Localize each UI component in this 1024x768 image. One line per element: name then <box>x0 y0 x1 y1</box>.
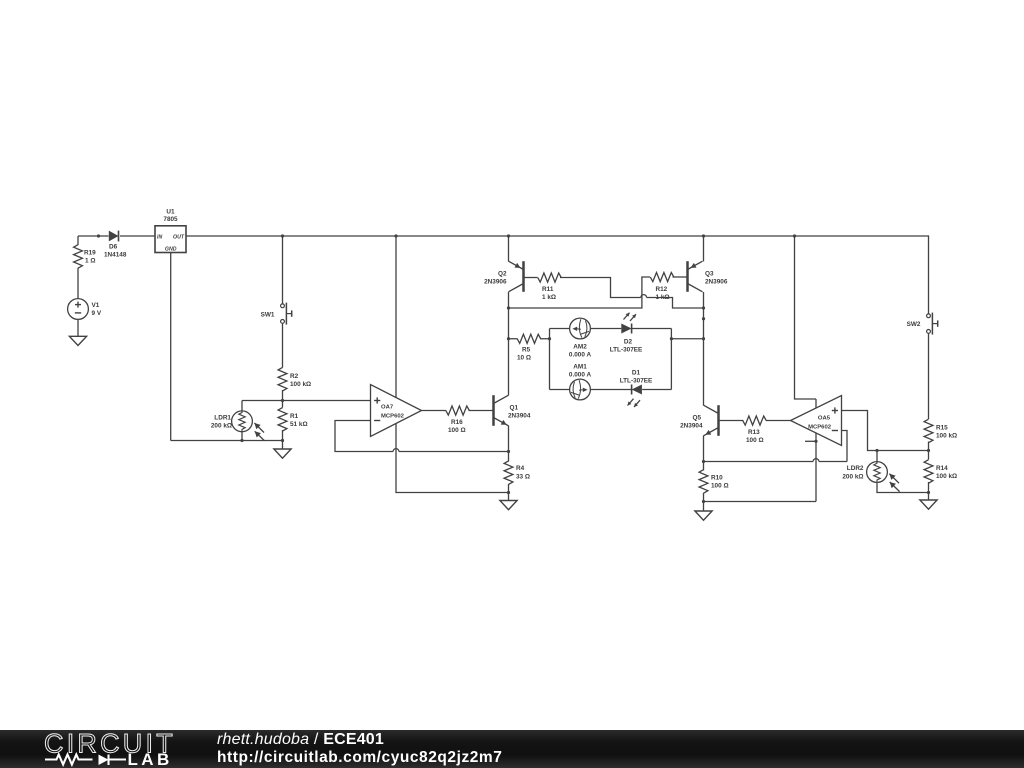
svg-text:1 kΩ: 1 kΩ <box>542 294 556 301</box>
wire Q5 emitter down to feedback node <box>703 436 705 462</box>
svg-text:100 kΩ: 100 kΩ <box>936 433 957 440</box>
node dot rail at D6 anode <box>97 234 100 237</box>
svg-text:R19: R19 <box>84 250 96 257</box>
wire D-loop tap to Q3 collector line <box>671 338 703 340</box>
wire V1 bottom to ground <box>77 319 79 336</box>
node dot Q3 collector / R11 <box>702 306 705 309</box>
wire AM1 to D1 <box>590 389 631 391</box>
svg-text:MCP602: MCP602 <box>808 424 832 430</box>
svg-text:0.000 A: 0.000 A <box>569 371 592 378</box>
wire Q1 emitter down to feedback node <box>508 426 510 452</box>
svg-text:SW2: SW2 <box>907 321 921 328</box>
svg-text:LDR2: LDR2 <box>847 465 864 472</box>
wire R5 right lead <box>540 338 550 340</box>
op-amp OA5 MCP602 (mirrored) <box>791 396 842 446</box>
svg-text:R12: R12 <box>656 286 668 293</box>
wire rail to Q3 emitter <box>703 236 705 261</box>
svg-text:OUT: OUT <box>173 234 185 240</box>
resistor R19 <box>74 245 97 269</box>
resistor R15 <box>924 419 957 443</box>
LED D1 LTL-307EE <box>620 369 653 407</box>
photoresistor LDR2 <box>842 462 899 492</box>
wire OA5 V+ from rail <box>795 236 817 399</box>
wire top 5V rail U1 OUT to SW2 corner <box>186 236 929 314</box>
svg-text:100 kΩ: 100 kΩ <box>936 473 957 480</box>
svg-text:Q5: Q5 <box>692 415 701 422</box>
ground below R14 <box>920 493 937 510</box>
wire OA5 minus input <box>842 431 848 462</box>
svg-text:AM2: AM2 <box>573 343 587 350</box>
wire bottom-left rail U1 GND to R1 bottom <box>171 440 283 442</box>
svg-text:GND: GND <box>165 247 177 253</box>
svg-text:D1: D1 <box>632 369 641 376</box>
svg-text:R10: R10 <box>711 475 723 482</box>
wire SW2 bottom to R15 <box>928 333 930 419</box>
wire R12 right to Q3 base <box>673 276 688 278</box>
svg-text:2N3906: 2N3906 <box>484 279 507 286</box>
svg-text:1 Ω: 1 Ω <box>85 258 95 265</box>
wire D-loop right vertical <box>670 329 672 390</box>
wire LDR1 bottom stub <box>241 432 243 441</box>
transistor Q2 2N3906 <box>484 261 523 292</box>
svg-text:1N4148: 1N4148 <box>104 252 127 259</box>
svg-text:33 Ω: 33 Ω <box>516 474 530 481</box>
wire D1 to right vertical <box>642 389 671 391</box>
wire LDR2 top stub <box>876 451 878 462</box>
svg-text:100 Ω: 100 Ω <box>711 483 729 490</box>
wire R19 top lead <box>77 236 79 245</box>
node dot rail at SW1 <box>281 234 284 237</box>
node dot Q3 collector mid <box>702 317 705 320</box>
transistor Q5 2N3904 <box>680 405 718 436</box>
transistor Q1 2N3904 <box>494 395 531 426</box>
LED D2 LTL-307EE <box>610 313 643 354</box>
node dot LDR1 bottom <box>240 439 243 442</box>
regulator U1 7805 <box>155 209 186 253</box>
wire rail to Q2 emitter <box>508 236 510 261</box>
resistor R13 <box>743 416 767 444</box>
wire R14 top lead <box>928 451 930 460</box>
svg-text:LDR1: LDR1 <box>214 415 231 422</box>
diode D6 <box>104 231 127 259</box>
node dot R1 bottom ground <box>281 439 284 442</box>
node dot R4 bottom ground <box>507 491 510 494</box>
resistor R11 <box>538 273 562 301</box>
node dot rail at OA7 supply <box>394 234 397 237</box>
wire SW1 top from rail <box>282 236 284 304</box>
wire Q5 feedback row to OA5 minus drop <box>704 459 848 462</box>
wire D6 cathode to U1 IN <box>120 235 155 237</box>
node dot R5 left <box>507 337 510 340</box>
ammeter AM2 <box>569 318 592 358</box>
resistor R12 <box>650 273 674 302</box>
wire node row y=400.5 LDR1 to OA7 + <box>242 400 371 402</box>
svg-text:AM1: AM1 <box>573 363 587 370</box>
svg-text:IN: IN <box>157 234 162 240</box>
node dot Q3 collector / D loop <box>702 337 705 340</box>
node dot rail at Q2 emitter <box>507 234 510 237</box>
switch SW2 <box>907 313 938 335</box>
node dot OA5 V- stub <box>814 440 817 443</box>
CircuitLab logo <box>0 730 200 768</box>
wire R4 bottom lead <box>508 484 510 493</box>
svg-text:R1: R1 <box>290 413 299 420</box>
node dot divider R15/R14 <box>927 449 930 452</box>
wire Q3 collector down to Q5 collector <box>703 292 705 405</box>
svg-text:D2: D2 <box>624 338 633 345</box>
resistor R14 <box>924 460 957 484</box>
svg-text:R14: R14 <box>936 465 948 472</box>
node dot rail at Q3 emitter <box>702 234 705 237</box>
ground below V1 <box>69 336 86 345</box>
svg-text:R13: R13 <box>748 429 760 436</box>
node dot Q2 collector / R12 <box>507 306 510 309</box>
voltage source V1 <box>68 299 102 320</box>
resistor R10 <box>699 470 728 494</box>
wire AM2 to D2 <box>590 328 621 330</box>
svg-text:MCP602: MCP602 <box>381 413 405 419</box>
wire OA5 plus input to divider node <box>842 411 929 451</box>
photoresistor LDR1 <box>211 411 265 441</box>
node dot LDR2 top <box>875 449 878 452</box>
wire ammeter loop left vertical <box>549 329 551 390</box>
svg-text:7805: 7805 <box>163 216 178 223</box>
svg-text:U1: U1 <box>166 209 175 216</box>
node dot R10 bottom ground <box>702 500 705 503</box>
wire SW1 bottom to R2 top <box>282 323 284 367</box>
svg-text:R5: R5 <box>522 347 531 354</box>
wire R14 bottom lead <box>928 482 930 493</box>
ammeter AM1 <box>569 363 592 400</box>
svg-text:2N3904: 2N3904 <box>680 423 703 430</box>
wire R4 top lead <box>508 452 510 462</box>
resistor R5 <box>517 334 541 361</box>
svg-text:100 Ω: 100 Ω <box>746 437 764 444</box>
svg-text:V1: V1 <box>92 302 100 309</box>
resistor R4 <box>504 461 530 485</box>
svg-text:2N3906: 2N3906 <box>705 279 728 286</box>
svg-text:200 kΩ: 200 kΩ <box>842 474 863 481</box>
svg-text:OA7: OA7 <box>381 404 394 410</box>
wire R16 to Q1 base <box>469 410 494 412</box>
svg-text:Q2: Q2 <box>498 271 507 278</box>
wire AM1 branch left <box>550 389 570 391</box>
node dot AM loop left <box>548 337 551 340</box>
wire OA7 power rail x=396 (behind op-amp) and to ground row <box>396 236 509 493</box>
logo resistor-diode glyph <box>45 755 126 766</box>
wire OA7 output to R16 <box>422 410 447 412</box>
svg-text:200 kΩ: 200 kΩ <box>211 423 232 430</box>
svg-text:Q3: Q3 <box>705 271 714 278</box>
svg-text:OA5: OA5 <box>818 415 831 421</box>
wire R5 left lead <box>509 338 518 340</box>
svg-text:R4: R4 <box>516 465 525 472</box>
node dot R14 bottom ground <box>927 491 930 494</box>
svg-text:D6: D6 <box>109 244 118 251</box>
wire R13 to OA5 output <box>766 420 791 422</box>
node dot Q5 emitter feedback <box>702 460 705 463</box>
node dot D loop right <box>670 337 673 340</box>
node dot Q1 emitter feedback <box>507 450 510 453</box>
footer bar <box>0 730 1024 768</box>
wire R2 bottom to node row <box>282 390 284 401</box>
svg-text:LTL-307EE: LTL-307EE <box>610 346 643 353</box>
svg-text:R16: R16 <box>451 419 463 426</box>
wire ground row R10 to OA5 V- <box>704 501 817 503</box>
wire Q1 collector up / Q2 collector chain <box>508 292 510 395</box>
wire AM2 branch left <box>550 328 570 330</box>
node dot R2/R1 divider <box>281 399 284 402</box>
svg-text:0.000 A: 0.000 A <box>569 351 592 358</box>
wire R10 top lead <box>703 462 705 471</box>
switch SW1 <box>261 303 292 325</box>
ground below R10 <box>695 502 712 521</box>
transistor Q3 2N3906 <box>688 261 728 292</box>
wire OA5 power vertical x=816 (behind op-amp) <box>815 399 817 502</box>
wire D2 to right vertical <box>632 328 672 330</box>
wire OA7 minus feedback to Q1 emitter node <box>335 421 509 452</box>
ground below R1 <box>274 441 291 459</box>
svg-text:LAB: LAB <box>128 750 173 768</box>
wire LDR2 bottom to ground node <box>877 482 929 492</box>
resistor R1 <box>278 408 307 432</box>
wire R1 bottom lead <box>282 430 284 441</box>
resistor R16 <box>446 406 470 434</box>
svg-text:51 kΩ: 51 kΩ <box>290 421 308 428</box>
svg-text:2N3904: 2N3904 <box>508 413 531 420</box>
wire U1 GND down <box>170 253 172 441</box>
footer url <box>217 749 502 767</box>
svg-text:R15: R15 <box>936 425 948 432</box>
footer author / title <box>217 731 384 749</box>
wire LDR1 top stub <box>241 401 243 412</box>
ground below R4 <box>500 493 517 510</box>
svg-text:R2: R2 <box>290 373 299 380</box>
svg-text:100 kΩ: 100 kΩ <box>290 381 311 388</box>
svg-text:LTL-307EE: LTL-307EE <box>620 377 653 384</box>
svg-text:10 Ω: 10 Ω <box>517 355 531 362</box>
node dot rail at OA5 supply <box>793 234 796 237</box>
wire R19 bottom to V1 top <box>77 268 79 299</box>
wire R10 bottom lead <box>703 493 705 502</box>
wire R11 right s-bend to Q3 collector node <box>560 278 704 309</box>
wire R15 bottom lead <box>928 442 930 451</box>
wire top 5V rail from R19 to D6 anode <box>78 235 109 237</box>
op-amp OA7 MCP602 <box>371 385 422 437</box>
svg-text:Q1: Q1 <box>510 405 519 412</box>
wire R1 top lead <box>282 401 284 408</box>
wire R12 left to Q2 collector node <box>509 277 651 308</box>
wire Q2 base to R11 <box>524 277 538 279</box>
wire OA5 V- pin stub <box>805 440 816 442</box>
svg-text:9 V: 9 V <box>92 310 102 317</box>
wire Q5 base to R13 <box>719 420 744 422</box>
svg-text:1 kΩ: 1 kΩ <box>656 294 670 301</box>
resistor R2 <box>278 367 311 391</box>
svg-text:SW1: SW1 <box>261 311 275 318</box>
svg-text:100 Ω: 100 Ω <box>448 427 466 434</box>
svg-text:R11: R11 <box>542 286 554 293</box>
